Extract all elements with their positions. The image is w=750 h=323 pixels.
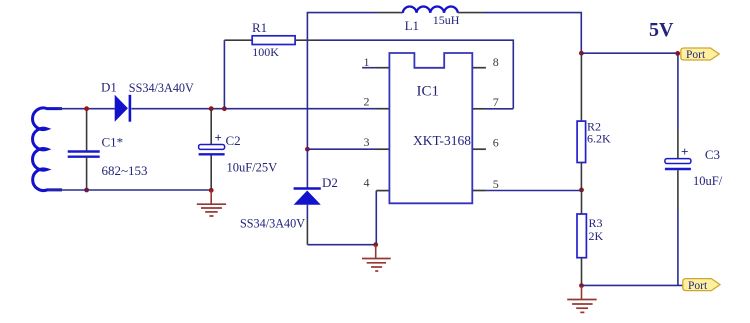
inductor receiver coil (33, 108, 62, 191)
pin 3 stub (376, 148, 390, 150)
svg-text:3: 3 (364, 135, 370, 149)
capacitor C2 (199, 109, 225, 191)
wire (48, 189, 211, 191)
pin 5 stub (472, 190, 486, 192)
svg-text:682~153: 682~153 (102, 163, 148, 178)
svg-text:8: 8 (493, 55, 499, 69)
svg-text:SS34/3A40V: SS34/3A40V (240, 216, 305, 230)
svg-text:2K: 2K (589, 229, 604, 243)
svg-text:4: 4 (364, 176, 370, 190)
wire (306, 149, 308, 188)
ground (567, 286, 597, 313)
pin 7 stub (472, 108, 486, 110)
node junction pin4 ground (373, 242, 378, 247)
node junction C2 bottom (209, 188, 214, 193)
svg-text:Port: Port (686, 49, 706, 61)
resistor R2 (577, 53, 586, 190)
svg-text:1: 1 (364, 55, 370, 69)
wire (58, 108, 115, 110)
wire (307, 13, 376, 150)
wire (458, 12, 485, 14)
svg-text:IC1: IC1 (417, 83, 440, 99)
node junction R1 bottom (222, 106, 227, 111)
pin 2 stub (376, 108, 390, 110)
svg-text:C3: C3 (705, 147, 720, 162)
svg-text:6: 6 (493, 136, 499, 150)
capacitor C1 (68, 109, 100, 190)
port Port (output) (683, 279, 720, 292)
svg-text:10uF/25V: 10uF/25V (227, 160, 278, 174)
svg-text:+: + (215, 130, 222, 145)
svg-text:7: 7 (493, 95, 499, 109)
node junction C2 top (209, 106, 214, 111)
diode D2 (294, 189, 321, 205)
inductor L1 (403, 6, 458, 12)
wire (307, 148, 376, 150)
wire (582, 284, 683, 286)
ground (362, 245, 391, 271)
wire (306, 218, 308, 245)
svg-text:D2: D2 (322, 175, 338, 190)
svg-text:100K: 100K (252, 45, 279, 59)
svg-text:2: 2 (364, 95, 370, 109)
svg-text:10uF/: 10uF/ (693, 174, 723, 188)
wire (306, 205, 308, 218)
pin 6 stub (472, 148, 486, 150)
node junction 5V rail (579, 51, 584, 56)
svg-text:15uH: 15uH (433, 13, 460, 27)
wire (581, 52, 678, 54)
node junction pin3/D2 (305, 147, 310, 152)
svg-text:XKT-3168: XKT-3168 (413, 133, 471, 148)
pin 8 stub (472, 67, 486, 69)
svg-text:SS34/3A40V: SS34/3A40V (129, 81, 194, 95)
op-amp IC1 body XKT-3168 (389, 53, 472, 203)
svg-text:C2: C2 (226, 133, 241, 148)
node junction port tap (675, 51, 680, 56)
svg-text:Port: Port (688, 280, 708, 292)
node junction R3 bottom (579, 283, 584, 288)
node junction C1 bottom (84, 188, 89, 193)
wire (486, 190, 582, 192)
node junction pin5/R2/R3 (579, 188, 584, 193)
svg-text:C1*: C1* (102, 134, 124, 149)
diode D1 (115, 95, 130, 122)
pin 4 stub (376, 190, 389, 192)
wire (486, 108, 513, 110)
port Port (5V) (681, 48, 719, 61)
svg-text:6.2K: 6.2K (587, 131, 611, 145)
capacitor C3 (665, 53, 691, 285)
wire (132, 108, 377, 110)
svg-text:R3: R3 (589, 216, 603, 230)
wire (375, 191, 377, 245)
node junction C1 top (84, 106, 89, 111)
pin 1 stub (362, 67, 389, 69)
svg-text:5V: 5V (649, 19, 674, 41)
wire (307, 244, 375, 246)
svg-text:L1: L1 (405, 18, 419, 33)
svg-text:D1: D1 (101, 80, 117, 95)
resistor R1 (224, 36, 318, 109)
svg-text:R1: R1 (252, 20, 267, 35)
resistor R3 (577, 190, 586, 286)
wire (485, 13, 582, 54)
wire (318, 40, 513, 109)
wire (376, 12, 403, 14)
ground (197, 190, 226, 216)
svg-text:+: + (681, 144, 688, 159)
svg-text:5: 5 (493, 177, 499, 191)
